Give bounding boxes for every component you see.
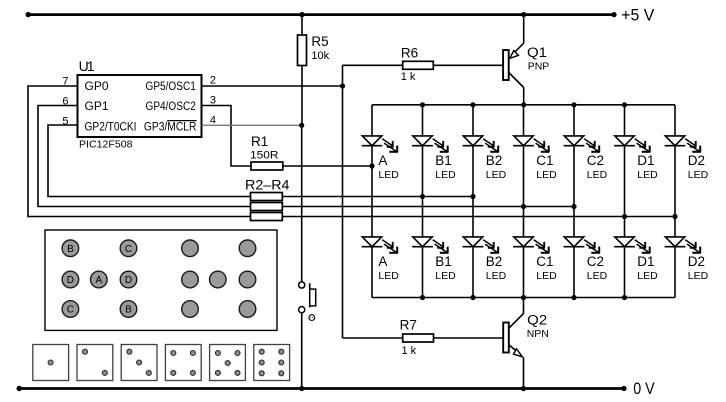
LED D2 row2	[665, 237, 701, 253]
transistor Q1	[523, 15, 525, 44]
wire R4 to D line	[282, 216, 675, 218]
wire LED anode top bus	[372, 104, 675, 106]
LED A row2	[362, 237, 398, 253]
node bottom bus B1	[420, 295, 425, 300]
+5V rail	[28, 13, 614, 16]
resistor R6	[343, 64, 403, 66]
svg-text:D1: D1	[637, 153, 654, 168]
resistor R1	[251, 162, 283, 170]
die face 3	[121, 345, 157, 381]
svg-text:A: A	[378, 153, 387, 168]
node C2 junction	[571, 204, 576, 209]
overline on MCLR	[167, 120, 196, 122]
svg-text:LED: LED	[587, 270, 608, 282]
wire column D2	[674, 105, 676, 136]
svg-text:PNP: PNP	[528, 61, 550, 73]
LED C1 row1	[513, 136, 549, 152]
svg-text:GP3/MCLR: GP3/MCLR	[144, 121, 197, 133]
svg-text:C: C	[125, 244, 132, 255]
svg-text:D1: D1	[637, 254, 654, 269]
svg-text:B1: B1	[435, 153, 452, 168]
svg-text:2: 2	[210, 75, 216, 87]
svg-text:LED: LED	[435, 169, 456, 181]
legend circle C bottom-left	[62, 301, 79, 318]
svg-text:R7: R7	[400, 317, 417, 332]
svg-text:D: D	[125, 275, 132, 286]
node B2 junction	[470, 194, 475, 199]
LED C2 row1	[564, 136, 600, 152]
svg-text:A: A	[95, 275, 102, 286]
dice LED layout legend box	[45, 230, 277, 330]
wire base node vertical R6 to R7	[342, 65, 344, 338]
die face 1	[33, 345, 69, 381]
LED D2 row1	[665, 136, 701, 152]
svg-text:B1: B1	[435, 254, 452, 269]
svg-text:10k: 10k	[311, 50, 329, 62]
legend circle D mid-left	[62, 271, 79, 288]
op-amp U1 IC box PIC12F508	[78, 75, 202, 137]
resistor R3	[251, 203, 283, 211]
wire pin3 GP4/OSC2 to R1	[202, 106, 252, 167]
wire pin2 GP5/OSC1 to base node	[202, 85, 343, 87]
svg-text:B: B	[67, 244, 74, 255]
svg-text:R5: R5	[311, 34, 328, 49]
wire pin6 GP1 loop to R3	[38, 106, 251, 207]
LED C1 row2	[513, 237, 549, 253]
node top bus B1	[420, 102, 425, 107]
wire R1 to LED A cathode node	[283, 165, 372, 167]
switch actuator	[309, 283, 311, 289]
svg-text:C: C	[67, 305, 74, 316]
push-button switch S1	[301, 125, 303, 282]
wire column B2	[472, 105, 474, 136]
legend circle D mid-right	[120, 271, 137, 288]
node C1 junction	[521, 204, 526, 209]
svg-text:C2: C2	[587, 153, 604, 168]
resistor R2	[251, 193, 283, 201]
node bottom bus C2	[571, 295, 576, 300]
svg-text:R2–R4: R2–R4	[245, 178, 290, 193]
node top bus C1	[521, 102, 526, 107]
svg-text:B2: B2	[486, 254, 503, 269]
LED C2 row2	[564, 237, 600, 253]
LED A row1	[362, 136, 398, 152]
node bottom bus B2	[470, 295, 475, 300]
svg-text:NPN: NPN	[527, 328, 549, 340]
node top bus D1	[622, 102, 627, 107]
LED B1 row1	[412, 136, 448, 152]
svg-text:D: D	[67, 275, 74, 286]
switch momentary symbol	[309, 315, 315, 321]
svg-text:GP1: GP1	[85, 101, 109, 113]
node D2 junction	[672, 214, 677, 219]
node top bus B2	[470, 102, 475, 107]
svg-text:LED: LED	[637, 169, 658, 181]
svg-text:B2: B2	[486, 153, 503, 168]
resistor R5	[301, 15, 303, 35]
node top bus C2	[571, 102, 576, 107]
svg-text:GP4/OSC2: GP4/OSC2	[146, 101, 196, 113]
svg-text:1 k: 1 k	[401, 71, 416, 83]
0V rail	[19, 387, 624, 390]
wire pin7 GP0 loop to R4	[28, 86, 251, 217]
die face 2	[77, 345, 113, 381]
svg-text:C1: C1	[536, 153, 553, 168]
node MCLR junction	[299, 123, 304, 128]
LED D1 row1	[614, 136, 650, 152]
svg-text:LED: LED	[435, 270, 456, 282]
resistor R7	[343, 337, 403, 339]
svg-text:LED: LED	[486, 169, 507, 181]
wire column D1	[624, 105, 626, 136]
die face 6	[254, 345, 290, 381]
node B1 junction	[420, 194, 425, 199]
svg-text:0 V: 0 V	[633, 380, 655, 398]
node bottom bus D1	[622, 295, 627, 300]
svg-text:150R: 150R	[250, 149, 279, 161]
svg-text:R1: R1	[251, 134, 268, 149]
wire column C1	[523, 105, 525, 136]
legend circle B top-left	[62, 240, 79, 257]
LED B2 row1	[463, 136, 499, 152]
legend circle A mid-center	[91, 271, 108, 288]
svg-text:Q2: Q2	[527, 312, 547, 327]
node 0V left terminal	[17, 386, 22, 391]
svg-text:GP0: GP0	[85, 81, 109, 93]
transistor Q2	[523, 298, 525, 314]
node +5V right terminal	[611, 12, 616, 17]
svg-text:LED: LED	[587, 169, 608, 181]
wire LED cathode bottom bus	[372, 297, 675, 299]
svg-text:LED: LED	[688, 270, 709, 282]
svg-text:U1: U1	[79, 58, 95, 74]
svg-text:LED: LED	[688, 169, 709, 181]
LED D1 row2	[614, 237, 650, 253]
legend pip group right	[182, 240, 256, 317]
svg-text:Q1: Q1	[527, 45, 547, 60]
wire pin4 GP3/MCLR stub	[202, 124, 302, 126]
svg-text:LED: LED	[536, 270, 557, 282]
node A line junction	[369, 163, 374, 168]
svg-text:D2: D2	[688, 254, 705, 269]
wire column C2	[573, 105, 575, 136]
node base drive junction	[340, 83, 345, 88]
svg-text:LED: LED	[536, 169, 557, 181]
wire column A	[371, 105, 373, 136]
svg-text:LED: LED	[378, 169, 399, 181]
die face 4	[165, 345, 201, 381]
svg-text:GP2/T0CKI: GP2/T0CKI	[85, 121, 137, 133]
wire R3 to C line	[282, 206, 574, 208]
node D1 junction	[622, 214, 627, 219]
svg-text:R6: R6	[401, 46, 418, 61]
node 0V right terminal	[621, 386, 626, 391]
svg-text:LED: LED	[378, 270, 399, 282]
wire column B1	[422, 105, 424, 136]
die face 5	[210, 345, 246, 381]
LED B1 row2	[412, 237, 448, 253]
wire R2 to B line	[282, 196, 473, 198]
svg-text:C2: C2	[587, 254, 604, 269]
svg-text:GP5/OSC1: GP5/OSC1	[146, 81, 196, 93]
node +5V left terminal	[26, 12, 31, 17]
resistor R4	[251, 213, 283, 221]
svg-text:C1: C1	[536, 254, 553, 269]
LED B2 row2	[463, 237, 499, 253]
svg-text:+5 V: +5 V	[621, 6, 654, 24]
node bottom bus C1	[521, 295, 526, 300]
svg-text:D2: D2	[688, 153, 705, 168]
legend circle C top-right	[120, 240, 137, 257]
svg-text:LED: LED	[486, 270, 507, 282]
svg-text:LED: LED	[637, 270, 658, 282]
svg-text:A: A	[378, 254, 387, 269]
wire pin5 GP2 loop to R2	[48, 125, 251, 197]
svg-text:1 k: 1 k	[402, 345, 417, 357]
svg-text:B: B	[125, 305, 132, 316]
svg-text:PIC12F508: PIC12F508	[79, 139, 133, 151]
legend circle B bottom-right	[120, 301, 137, 318]
